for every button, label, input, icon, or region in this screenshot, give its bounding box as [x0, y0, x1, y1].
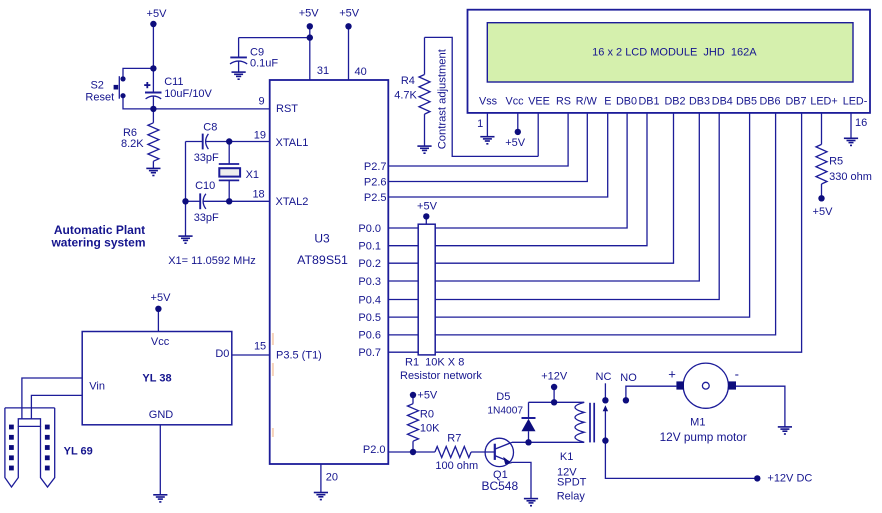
- svg-text:9: 9: [258, 96, 264, 108]
- svg-text:X1: X1: [246, 169, 259, 181]
- svg-text:YL 69: YL 69: [64, 446, 93, 458]
- svg-text:R/W: R/W: [576, 95, 598, 107]
- svg-text:DB5: DB5: [736, 95, 757, 107]
- svg-text:P0.4: P0.4: [358, 294, 381, 306]
- svg-text:E: E: [604, 95, 611, 107]
- svg-text:P0.6: P0.6: [358, 330, 381, 342]
- svg-text:+5V: +5V: [147, 8, 168, 20]
- svg-text:Vss: Vss: [479, 95, 498, 107]
- svg-text:-: -: [735, 367, 739, 382]
- svg-text:C11: C11: [164, 76, 183, 88]
- svg-text:LED-: LED-: [843, 95, 868, 107]
- svg-text:DB2: DB2: [664, 95, 685, 107]
- svg-text:Relay: Relay: [557, 490, 586, 502]
- svg-text:R0: R0: [420, 409, 434, 421]
- svg-text:Vin: Vin: [89, 380, 105, 392]
- svg-text:+: +: [668, 367, 676, 382]
- svg-text:+12V DC: +12V DC: [767, 473, 812, 485]
- svg-text:P2.5: P2.5: [364, 192, 387, 204]
- svg-text:+5V: +5V: [417, 390, 438, 402]
- svg-text:P0.1: P0.1: [358, 241, 381, 253]
- svg-text:R1 10K X 8: R1 10K X 8: [405, 357, 464, 369]
- svg-text:+5V: +5V: [299, 7, 320, 19]
- svg-text:S2: S2: [90, 80, 103, 92]
- svg-text:100 ohm: 100 ohm: [435, 460, 478, 472]
- svg-text:+5V: +5V: [505, 137, 526, 149]
- svg-text:P0.3: P0.3: [358, 276, 381, 288]
- svg-text:watering system: watering system: [50, 235, 145, 249]
- svg-text:+5V: +5V: [417, 201, 438, 213]
- svg-text:P2.0: P2.0: [363, 444, 386, 456]
- svg-text:XTAL1: XTAL1: [276, 137, 309, 149]
- svg-text:RST: RST: [276, 103, 298, 115]
- svg-text:19: 19: [254, 129, 266, 141]
- svg-text:X1= 11.0592 MHz: X1= 11.0592 MHz: [168, 255, 256, 267]
- svg-text:DB0: DB0: [616, 95, 637, 107]
- svg-text:+5V: +5V: [339, 7, 360, 19]
- svg-text:P2.7: P2.7: [364, 161, 387, 173]
- svg-text:33pF: 33pF: [194, 212, 219, 224]
- svg-text:DB7: DB7: [785, 95, 806, 107]
- svg-text:+5V: +5V: [151, 292, 172, 304]
- svg-text:8.2K: 8.2K: [121, 138, 144, 150]
- svg-text:1: 1: [477, 118, 483, 130]
- svg-text:NO: NO: [620, 372, 637, 384]
- svg-text:31: 31: [317, 65, 329, 77]
- svg-text:+12V: +12V: [541, 371, 568, 383]
- svg-text:20: 20: [326, 471, 338, 483]
- svg-text:DB6: DB6: [759, 95, 780, 107]
- svg-text:16 x 2 LCD MODULE JHD 162A: 16 x 2 LCD MODULE JHD 162A: [592, 47, 757, 59]
- svg-text:BC548: BC548: [481, 479, 518, 493]
- svg-text:AT89S51: AT89S51: [297, 253, 348, 267]
- svg-text:+5V: +5V: [813, 206, 834, 218]
- svg-text:18: 18: [252, 189, 264, 201]
- svg-text:15: 15: [254, 341, 266, 353]
- svg-text:U3: U3: [314, 231, 330, 245]
- svg-text:DB4: DB4: [712, 95, 733, 107]
- svg-text:10K: 10K: [420, 423, 440, 435]
- svg-text:12V pump motor: 12V pump motor: [660, 430, 747, 444]
- svg-text:YL 38: YL 38: [142, 373, 171, 385]
- svg-text:40: 40: [355, 66, 367, 78]
- svg-text:NC: NC: [596, 371, 612, 383]
- svg-text:Vcc: Vcc: [151, 336, 170, 348]
- svg-text:P3.5 (T1): P3.5 (T1): [276, 349, 322, 361]
- svg-text:VEE: VEE: [528, 95, 550, 107]
- svg-text:33pF: 33pF: [194, 152, 219, 164]
- svg-text:P2.6: P2.6: [364, 177, 387, 189]
- svg-text:330 ohm: 330 ohm: [829, 171, 872, 183]
- svg-text:4.7K: 4.7K: [394, 89, 417, 101]
- svg-text:SPDT: SPDT: [557, 477, 587, 489]
- svg-text:R4: R4: [401, 75, 415, 87]
- svg-text:16: 16: [855, 117, 867, 129]
- svg-text:10uF/10V: 10uF/10V: [164, 88, 212, 100]
- svg-text:GND: GND: [149, 409, 174, 421]
- svg-text:D0: D0: [215, 348, 229, 360]
- svg-text:LED+: LED+: [810, 95, 837, 107]
- svg-text:DB1: DB1: [638, 95, 659, 107]
- svg-text:Vcc: Vcc: [506, 95, 525, 107]
- svg-text:RS: RS: [556, 95, 571, 107]
- svg-text:P0.5: P0.5: [358, 312, 381, 324]
- svg-text:Resistor network: Resistor network: [400, 370, 482, 382]
- svg-text:K1: K1: [560, 451, 573, 463]
- svg-text:0.1uF: 0.1uF: [250, 57, 278, 69]
- svg-text:P0.2: P0.2: [358, 258, 381, 270]
- svg-text:M1: M1: [690, 416, 705, 428]
- svg-text:P0.7: P0.7: [358, 347, 381, 359]
- svg-text:DB3: DB3: [689, 95, 710, 107]
- svg-text:C10: C10: [195, 180, 215, 192]
- svg-text:P0.0: P0.0: [358, 223, 381, 235]
- svg-text:R7: R7: [447, 433, 461, 445]
- svg-text:Reset: Reset: [85, 91, 114, 103]
- svg-text:D5: D5: [496, 391, 510, 403]
- svg-text:1N4007: 1N4007: [487, 406, 523, 417]
- svg-text:R5: R5: [829, 156, 843, 168]
- svg-text:Contrast adjustment: Contrast adjustment: [437, 48, 449, 149]
- svg-text:C8: C8: [203, 121, 217, 133]
- svg-text:XTAL2: XTAL2: [276, 196, 309, 208]
